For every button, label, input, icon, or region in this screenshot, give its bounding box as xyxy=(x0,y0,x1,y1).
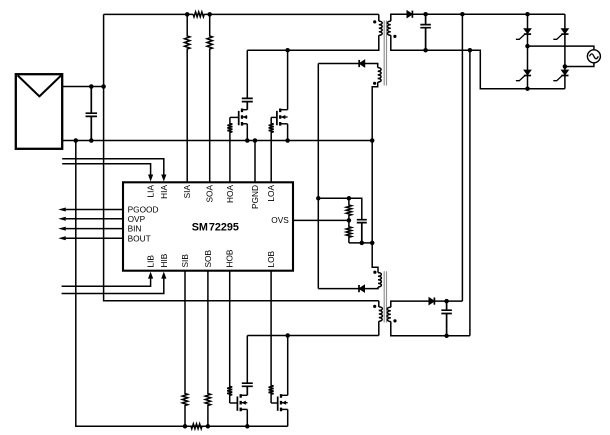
resistor R6 SIB xyxy=(182,271,187,427)
photovoltaic panel PV1 xyxy=(16,74,62,149)
transformer T2 secondary winding xyxy=(387,307,391,321)
svg-text:HIB: HIB xyxy=(159,253,169,267)
transistor Q4 xyxy=(280,394,282,411)
wire T1 secondary bottom lead / bus- xyxy=(391,35,565,88)
junction SCR1 anode xyxy=(525,12,530,17)
capacitor C2 bus A xyxy=(420,14,431,50)
wire LIA input xyxy=(62,164,150,175)
diode D4 aux B xyxy=(359,285,365,292)
wire PGND pin to PV- rail xyxy=(254,141,256,183)
transformer T1 primary winding xyxy=(379,21,382,35)
transistor Q2 xyxy=(279,109,281,126)
wire OVS top link xyxy=(318,198,362,219)
svg-text:BIN: BIN xyxy=(128,224,142,234)
wire top rail right of R1 xyxy=(204,13,378,15)
wire OVS pin xyxy=(293,219,349,221)
resistor R12 divider lower xyxy=(346,220,351,243)
svg-text:SIA: SIA xyxy=(182,185,192,199)
wire line A vertical xyxy=(317,64,319,289)
wire T2 primary top lead xyxy=(378,301,380,307)
photovoltaic panel chevron xyxy=(18,75,62,96)
junction PGND tap xyxy=(253,138,258,143)
wire T2 primary bottom lead to bridge B xyxy=(247,335,378,337)
wire Q4 drain branch xyxy=(287,336,289,396)
wire PV+ vertical riser and lower feed xyxy=(104,14,379,300)
wire aux B top lead xyxy=(372,243,378,273)
transformer T2 auxiliary winding xyxy=(378,273,381,287)
wire T1 primary top lead xyxy=(378,14,380,21)
op-amp driver IC U1 SM72295 body xyxy=(123,182,293,270)
junction C5 bottom xyxy=(444,334,449,339)
capacitor C6 OVS filter xyxy=(357,220,367,243)
junction C1 top xyxy=(89,84,94,89)
junction C6 bottom xyxy=(360,241,365,246)
junction AC node left xyxy=(525,44,530,49)
wire Q3 source to bottom rail xyxy=(246,409,248,426)
svg-text:SOB: SOB xyxy=(203,250,213,268)
junction SCR3 cathode to bus- xyxy=(525,86,530,91)
capacitor C1 input xyxy=(86,87,98,141)
junction C2 top xyxy=(423,12,428,17)
svg-text:LIB: LIB xyxy=(146,255,156,268)
wire OVP output xyxy=(66,218,123,220)
wire V3 bus+ vertical xyxy=(461,14,463,301)
junction SOB tap xyxy=(206,424,211,429)
wire AC source to node right xyxy=(565,63,594,67)
resistor R5 gate Q2 (LOA) xyxy=(269,117,274,182)
junction Q1 source xyxy=(245,138,250,143)
resistor R8 sense B xyxy=(185,424,208,429)
junction Q2 drain tap xyxy=(285,48,290,53)
resistor R4 gate Q1 (HOA) xyxy=(227,117,232,182)
wire aux B bottom lead left segment xyxy=(318,288,359,290)
wire T2 secondary top lead xyxy=(391,301,429,307)
resistor R7 SOB xyxy=(205,271,210,427)
svg-text:SIB: SIB xyxy=(180,254,190,268)
AC source V1 (grid) xyxy=(587,50,600,63)
T1 secondary phase dot xyxy=(393,35,396,38)
transformer T1 auxiliary winding xyxy=(378,68,381,83)
wire Q4 source to bottom rail xyxy=(287,409,289,426)
junction SIB tap xyxy=(183,424,188,429)
wire PV- rail (PGND net) xyxy=(62,140,372,142)
T1 primary phase dot xyxy=(373,20,376,23)
junction Q2 source xyxy=(285,138,290,143)
svg-text:LIA: LIA xyxy=(146,185,156,198)
transistor Q3 xyxy=(240,394,242,411)
wire aux A bottom lead to line B xyxy=(372,82,378,243)
wire DC bus+ top xyxy=(412,13,565,15)
junction C1 bottom xyxy=(89,138,94,143)
wire Q1 source to PV- rail xyxy=(246,124,248,141)
wire rectified B top xyxy=(434,300,462,302)
junction bus- to V4 drop xyxy=(468,48,473,53)
arrowhead HIB xyxy=(161,272,166,279)
wire SCR right leg xyxy=(564,14,566,89)
junction SIA tap xyxy=(185,12,190,17)
resistor R3 SOA xyxy=(207,14,212,182)
wire aux A top lead right segment xyxy=(365,64,378,68)
wire V4 bus- vertical xyxy=(469,50,471,336)
diode D1 rectifier A xyxy=(407,11,413,18)
thyristor SCR1 xyxy=(524,29,531,34)
wire BOUT output xyxy=(66,237,123,239)
resistor R11 divider upper xyxy=(346,198,351,220)
junction Q4 drain tap xyxy=(285,333,290,338)
T2 primary phase dot xyxy=(373,305,376,308)
junction PV- rail to vertical xyxy=(74,138,79,143)
diode D2 rectifier B xyxy=(429,298,435,305)
transformer T2 core xyxy=(384,271,386,322)
capacitor C4 blocking B xyxy=(242,383,253,395)
svg-text:SM 72295: SM 72295 xyxy=(192,222,239,234)
wire LIB input xyxy=(62,278,151,286)
wire T1 primary bottom lead to bridge A xyxy=(247,35,378,50)
wire OVS bottom link xyxy=(349,242,372,244)
resistor R2 SIA xyxy=(185,14,190,182)
T2 aux phase dot xyxy=(373,271,376,274)
resistor R1 sense xyxy=(193,12,204,17)
svg-text:SOA: SOA xyxy=(205,185,215,203)
wire Q3 drain branch upper xyxy=(246,336,248,384)
capacitor C3 blocking A xyxy=(242,98,253,109)
wire HIA input xyxy=(62,159,164,175)
transistor Q1 xyxy=(241,109,243,126)
svg-text:LOA: LOA xyxy=(266,185,276,202)
wire AC node left to source xyxy=(528,46,594,50)
T1 aux phase dot xyxy=(373,82,376,85)
svg-text:OVS: OVS xyxy=(271,215,289,225)
wire aux B bottom lead right segment xyxy=(365,287,378,289)
wire Q1 drain branch upper xyxy=(246,50,248,98)
diode D3 aux A xyxy=(359,60,365,67)
wire HIB input xyxy=(62,278,164,294)
wire PV+ lead xyxy=(62,86,103,88)
junction AC node right xyxy=(563,64,568,69)
wire aux A top lead left segment xyxy=(318,63,359,65)
svg-text:HOA: HOA xyxy=(225,185,235,203)
arrowhead LIB xyxy=(148,272,153,279)
wire Q2 source to PV- rail xyxy=(287,124,289,141)
thyristor SCR4 xyxy=(561,70,568,75)
arrowhead LIA xyxy=(148,175,153,182)
wire BIN output xyxy=(66,228,123,230)
junction Q3 source xyxy=(245,424,250,429)
capacitor C5 bus B xyxy=(441,301,452,336)
arrowhead HIA xyxy=(161,175,166,182)
svg-text:BOUT: BOUT xyxy=(128,233,151,243)
junction OVS divider mid xyxy=(347,218,352,223)
resistor R10 gate Q4 (LOB) xyxy=(269,271,274,403)
wire T1 secondary top lead xyxy=(391,14,407,21)
svg-text:OVP: OVP xyxy=(128,214,146,224)
junction C2 bottom xyxy=(423,48,428,53)
arrowhead PGOOD xyxy=(58,208,66,212)
wire PV- vertical to bottom rail xyxy=(76,141,288,427)
junction line B to OVS bottom xyxy=(370,241,375,246)
junction PV+ lead to riser xyxy=(101,84,106,89)
transformer T2 primary winding xyxy=(379,307,383,321)
wire Q2 drain branch xyxy=(287,50,289,109)
T2 secondary phase dot xyxy=(393,319,396,322)
transformer T1 secondary winding xyxy=(387,21,390,35)
svg-text:PGND: PGND xyxy=(250,185,260,209)
resistor R9 gate Q3 (HOB) xyxy=(227,271,232,403)
arrowhead BIN xyxy=(58,227,66,231)
thyristor SCR2 xyxy=(561,29,568,34)
svg-text:HIA: HIA xyxy=(159,185,169,199)
junction C5 top xyxy=(444,299,449,304)
wire T2 secondary bottom lead xyxy=(391,322,470,336)
junction line B at PV- rail xyxy=(370,138,375,143)
wire top rail left of R1 xyxy=(104,13,194,15)
transformer T1 core xyxy=(384,21,386,86)
junction bus+ to V3 drop xyxy=(460,12,465,17)
svg-text:HOB: HOB xyxy=(225,249,235,267)
junction R11 top xyxy=(347,196,352,201)
arrowhead BOUT xyxy=(58,236,66,240)
wire T2 primary bottom xyxy=(378,321,380,335)
junction line A to OVS top xyxy=(316,196,321,201)
thyristor SCR3 xyxy=(524,70,531,75)
wire PGOOD output xyxy=(66,209,123,211)
wire SCR left leg xyxy=(527,14,529,89)
arrowhead OVP xyxy=(58,217,66,221)
svg-text:LOB: LOB xyxy=(266,250,276,267)
junction SOA tap xyxy=(207,12,212,17)
